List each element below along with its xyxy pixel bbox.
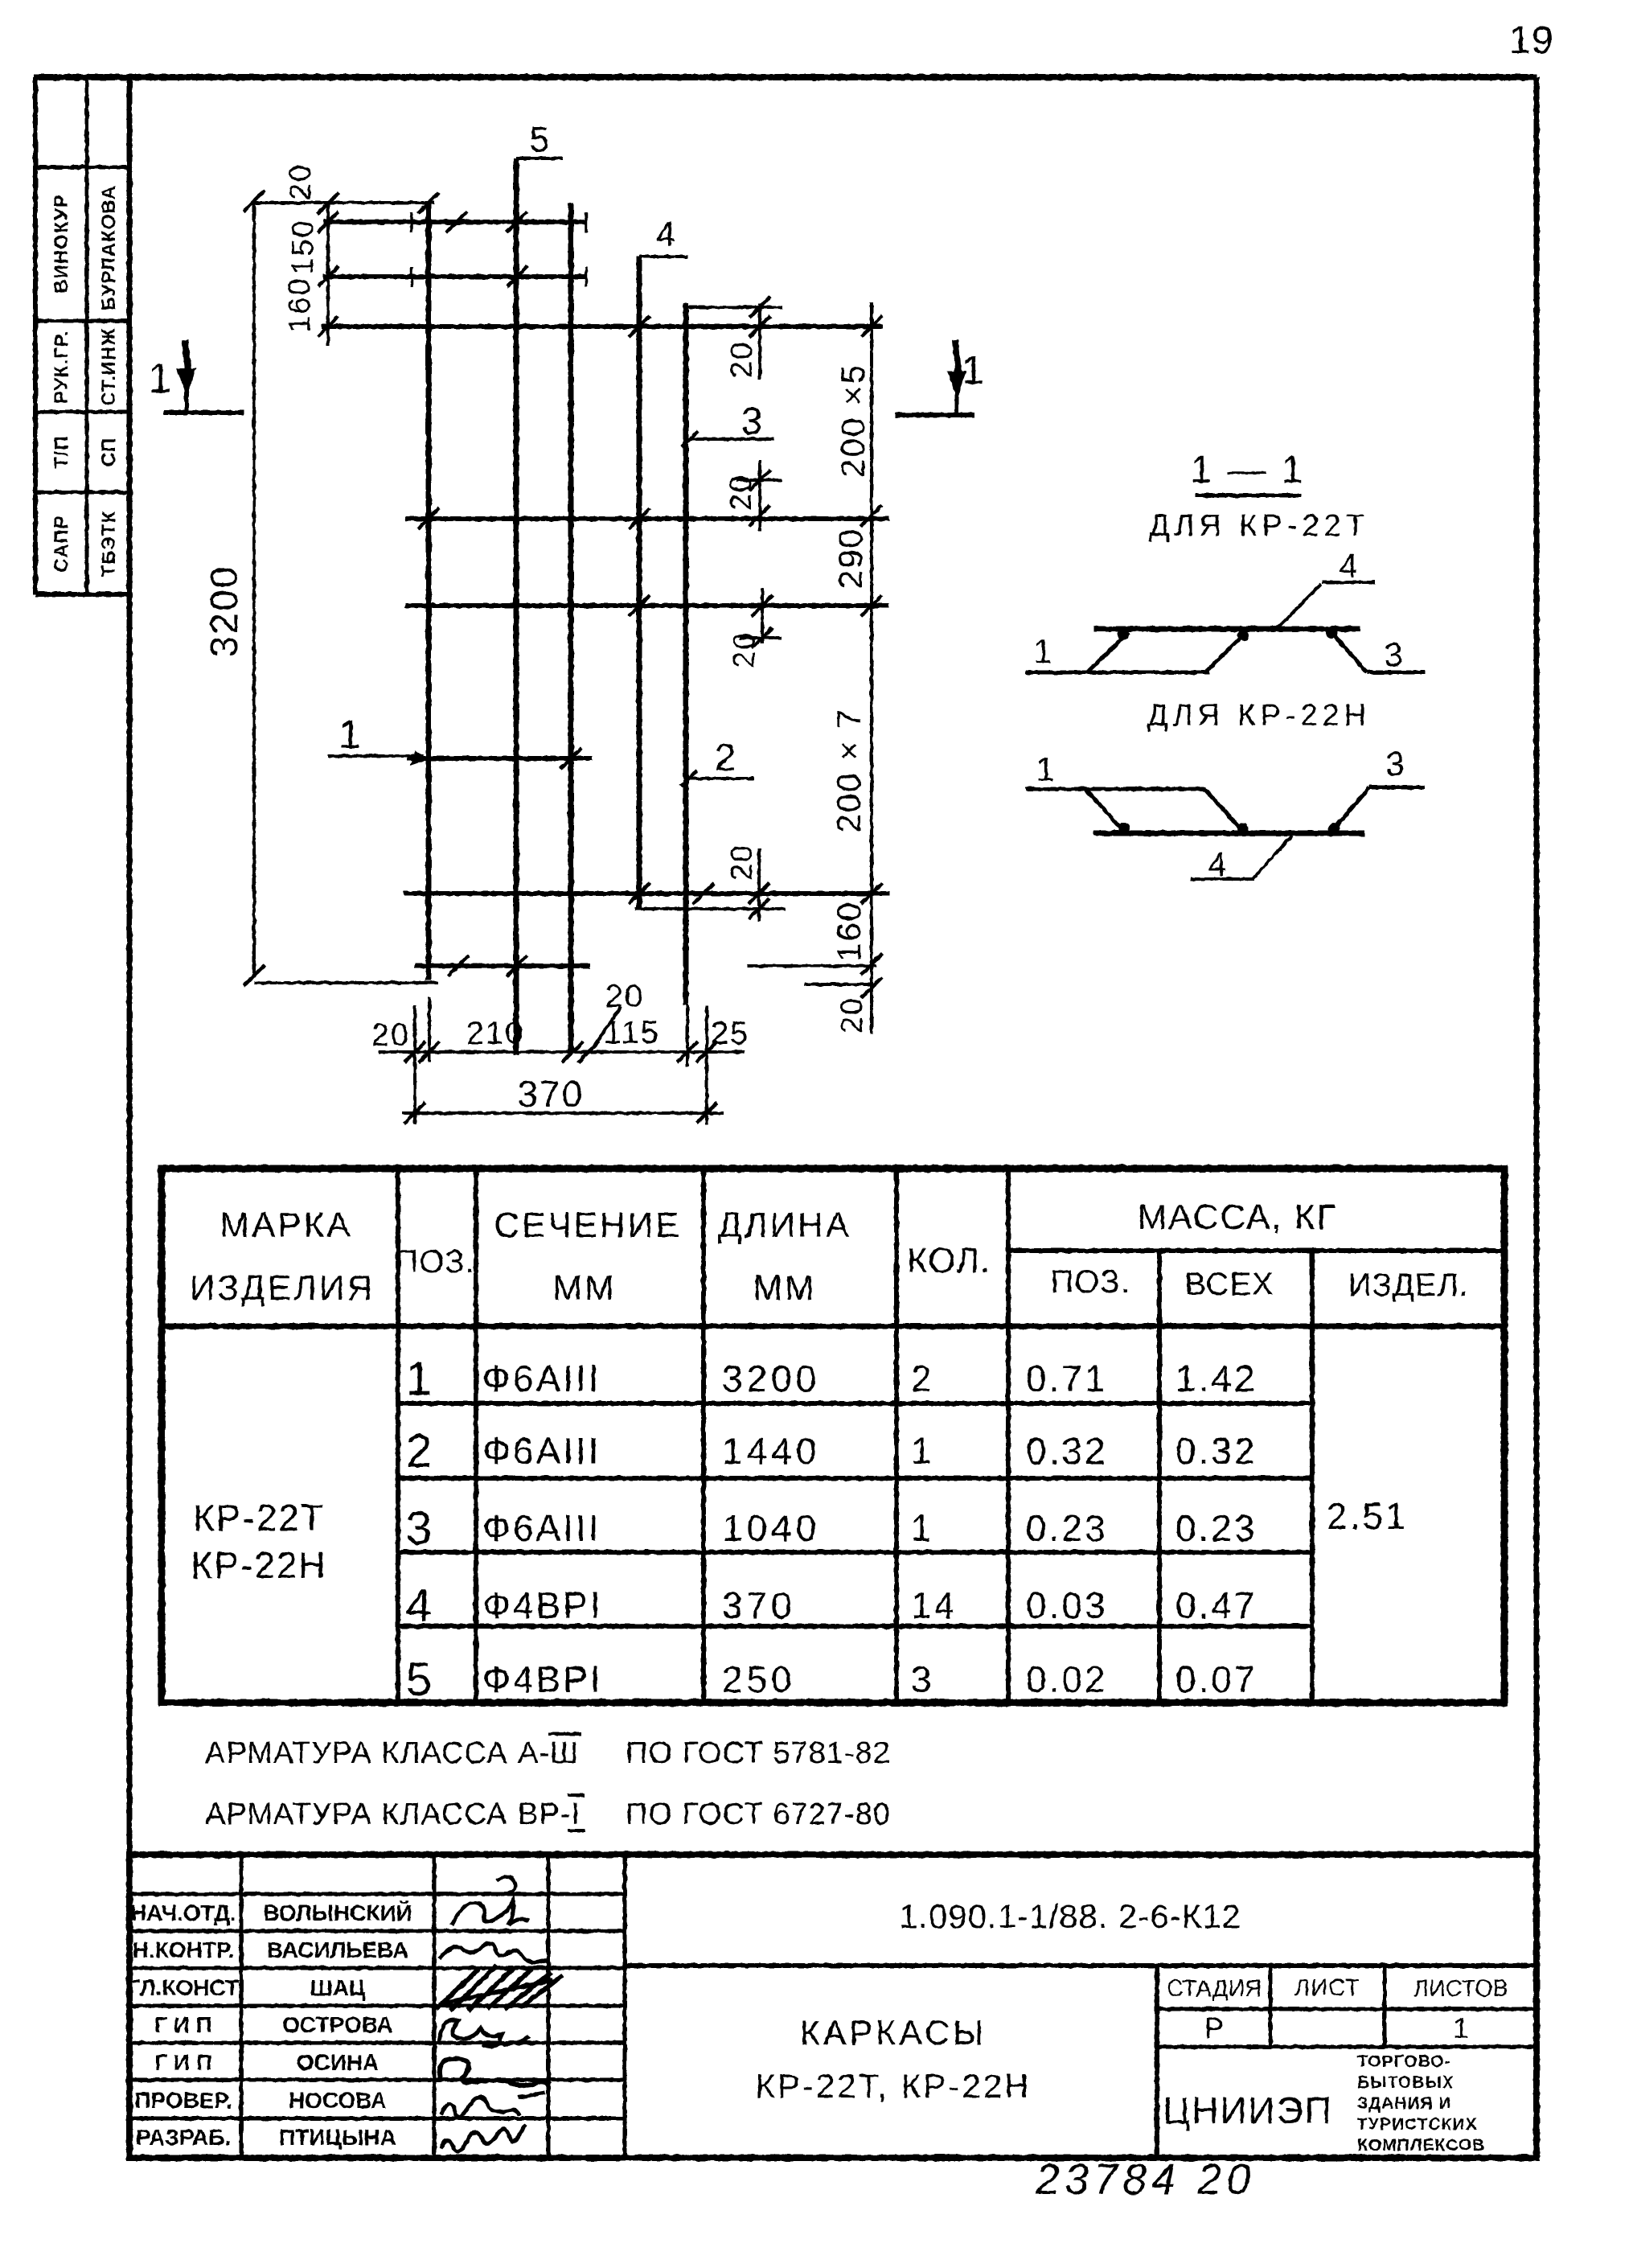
svg-text:0.23: 0.23 bbox=[1026, 1507, 1108, 1549]
svg-text:КОМПЛЕКСОВ: КОМПЛЕКСОВ bbox=[1357, 2136, 1485, 2155]
svg-text:1: 1 bbox=[1453, 2011, 1469, 2044]
svg-text:АРМАТУРА КЛАССА: АРМАТУРА КЛАССА bbox=[205, 1798, 507, 1831]
bar bottom extension stub bbox=[804, 983, 876, 986]
svg-text:0.71: 0.71 bbox=[1026, 1358, 1108, 1399]
rebar bar pos1 right bbox=[568, 203, 574, 1052]
svg-text:МАРКА: МАРКА bbox=[219, 1206, 352, 1245]
cross wire W8 bbox=[415, 963, 590, 968]
signature НАЧ.ОТД. bbox=[452, 1901, 529, 1925]
title block verticals left part bbox=[240, 1855, 244, 2158]
svg-text:0.32: 0.32 bbox=[1026, 1430, 1108, 1472]
svg-text:ЛИСТ: ЛИСТ bbox=[1294, 1975, 1360, 2001]
rebar bar pos2/3 right bbox=[683, 303, 689, 1005]
KP-22T bottom right rail (bar 3) bbox=[1367, 671, 1425, 675]
svg-text:1 — 1: 1 — 1 bbox=[1190, 449, 1305, 491]
mini dim D 20 bbox=[757, 848, 761, 921]
svg-text:5: 5 bbox=[530, 120, 551, 159]
section mark 1 right bbox=[895, 413, 974, 417]
svg-text:Г И П: Г И П bbox=[154, 2012, 212, 2037]
svg-text:СП: СП bbox=[98, 438, 120, 467]
svg-text:3: 3 bbox=[406, 1502, 433, 1555]
svg-text:0.23: 0.23 bbox=[1175, 1507, 1257, 1549]
section mark 1 left bbox=[163, 410, 244, 415]
svg-text:ЗДАНИЯ И: ЗДАНИЯ И bbox=[1357, 2094, 1452, 2113]
svg-text:1: 1 bbox=[1036, 750, 1056, 788]
cross wire W2 bbox=[323, 274, 586, 279]
doc number divider bbox=[625, 1963, 1536, 1968]
svg-text:3: 3 bbox=[911, 1658, 934, 1700]
dimension line 370 bbox=[402, 1111, 724, 1115]
svg-text:ДЛИНА: ДЛИНА bbox=[718, 1206, 851, 1245]
dimension line 3200 bbox=[252, 201, 256, 976]
label 4 with leader bbox=[639, 255, 688, 258]
chain extension verticals bbox=[413, 1005, 416, 1124]
svg-text:РУК.ГР.: РУК.ГР. bbox=[51, 330, 72, 404]
svg-text:370: 370 bbox=[722, 1584, 796, 1626]
svg-text:290: 290 bbox=[831, 528, 869, 589]
mini dimension line left bbox=[326, 201, 330, 346]
page right border bbox=[1534, 77, 1540, 2158]
svg-text:ПОЗ.: ПОЗ. bbox=[395, 1244, 474, 1280]
svg-text:1: 1 bbox=[149, 355, 174, 402]
svg-text:2: 2 bbox=[715, 737, 738, 779]
cross wire W7 + extension bbox=[404, 891, 889, 896]
svg-text:БЫТОВЫХ: БЫТОВЫХ bbox=[1357, 2073, 1454, 2092]
svg-text:1440: 1440 bbox=[722, 1430, 820, 1472]
bottom chain dimension line bbox=[379, 1050, 745, 1054]
svg-text:ШАЦ: ШАЦ bbox=[310, 1975, 366, 2000]
cross wire W4 + extension bbox=[405, 516, 889, 521]
svg-text:160: 160 bbox=[830, 901, 868, 962]
signature ГИП ОСТРОВА bbox=[439, 2019, 529, 2046]
svg-text:210: 210 bbox=[466, 1016, 525, 1051]
svg-text:ИЗДЕЛИЯ: ИЗДЕЛИЯ bbox=[190, 1268, 375, 1308]
stamp table frame bbox=[33, 77, 38, 594]
signature РАЗРАБ. ПТИЦЫНА bbox=[441, 2125, 526, 2151]
KP-22T bottom left rail (bar 1) bbox=[1026, 671, 1209, 675]
svg-text:4: 4 bbox=[656, 215, 677, 254]
svg-text:КАРКАСЫ: КАРКАСЫ bbox=[800, 2014, 987, 2052]
mini dim C 20 bbox=[761, 588, 764, 643]
svg-text:ВСЕХ: ВСЕХ bbox=[1184, 1267, 1274, 1302]
svg-text:Ф6АIII: Ф6АIII bbox=[482, 1430, 601, 1472]
svg-text:МАССА, КГ: МАССА, КГ bbox=[1138, 1198, 1338, 1237]
bottom extension line bbox=[254, 981, 438, 984]
svg-text:ТБЭТК: ТБЭТК bbox=[98, 511, 120, 577]
svg-text:3200: 3200 bbox=[203, 565, 246, 658]
rebar bar pos1 left (3200) bbox=[426, 203, 432, 980]
svg-text:НАЧ.ОТД.: НАЧ.ОТД. bbox=[130, 1900, 236, 1925]
cross wire W6 bbox=[407, 756, 593, 761]
svg-text:250: 250 bbox=[722, 1658, 796, 1700]
svg-text:ПТИЦЫНА: ПТИЦЫНА bbox=[279, 2125, 396, 2150]
svg-text:20: 20 bbox=[725, 341, 759, 378]
svg-text:20: 20 bbox=[728, 631, 761, 668]
signature ПРОВЕР. НОСОВА bbox=[441, 2097, 519, 2116]
svg-text:1.42: 1.42 bbox=[1175, 1358, 1257, 1399]
svg-text:200 × 7: 200 × 7 bbox=[830, 708, 868, 832]
svg-text:ВАСИЛЬЕВА: ВАСИЛЬЕВА bbox=[267, 1937, 408, 1962]
svg-text:ВИНОКУР: ВИНОКУР bbox=[51, 194, 72, 294]
svg-text:ОСТРОВА: ОСТРОВА bbox=[282, 2012, 393, 2037]
KP-22H bottom chord bar bbox=[1093, 831, 1364, 836]
svg-text:0.03: 0.03 bbox=[1026, 1584, 1108, 1626]
label 5 with leader bbox=[516, 157, 563, 160]
stamp row dividers bbox=[35, 166, 131, 170]
svg-text:25: 25 bbox=[711, 1016, 750, 1051]
svg-text:ИЗДЕЛ.: ИЗДЕЛ. bbox=[1348, 1268, 1469, 1303]
mini dim A top 20 bbox=[758, 304, 761, 380]
svg-text:КР-22Т: КР-22Т bbox=[193, 1497, 325, 1539]
svg-text:НОСОВА: НОСОВА bbox=[289, 2088, 387, 2113]
rebar bar pos1 mid with leader of label 5 bbox=[514, 158, 519, 1055]
svg-text:ПРОВЕР.: ПРОВЕР. bbox=[134, 2088, 232, 2113]
svg-text:ОСИНА: ОСИНА bbox=[297, 2050, 380, 2075]
svg-text:ЦНИИЭП: ЦНИИЭП bbox=[1163, 2089, 1333, 2131]
svg-text:1: 1 bbox=[911, 1430, 934, 1472]
svg-text:3: 3 bbox=[741, 401, 765, 443]
signature Н.КОНТР. bbox=[439, 1943, 548, 1967]
svg-text:1.090.1-1/88. 2-6-К12: 1.090.1-1/88. 2-6-К12 bbox=[899, 1897, 1241, 1935]
svg-text:ДЛЯ КР-22Т: ДЛЯ КР-22Т bbox=[1149, 509, 1369, 543]
svg-text:20: 20 bbox=[605, 979, 645, 1014]
label 1 with leader bbox=[328, 754, 423, 758]
svg-text:1: 1 bbox=[911, 1507, 934, 1549]
svg-text:Р: Р bbox=[1204, 2011, 1224, 2044]
svg-text:СТ.ИНЖ: СТ.ИНЖ bbox=[98, 327, 120, 406]
chain diag leader 20 bbox=[590, 1007, 621, 1052]
svg-text:1040: 1040 bbox=[722, 1507, 820, 1549]
KP-22T label 4 leader bbox=[1323, 581, 1375, 584]
KP-22T top chord bar bbox=[1093, 627, 1360, 632]
KP-22H top right rail (bar 3) bbox=[1369, 786, 1425, 790]
svg-text:КР-22Н: КР-22Н bbox=[191, 1544, 326, 1586]
svg-text:20: 20 bbox=[725, 844, 759, 881]
svg-text:3: 3 bbox=[1385, 745, 1405, 783]
svg-text:АРМАТУРА КЛАССА: АРМАТУРА КЛАССА bbox=[205, 1736, 507, 1770]
svg-text:0.47: 0.47 bbox=[1175, 1584, 1257, 1626]
svg-text:2: 2 bbox=[911, 1358, 934, 1399]
mini dim B 20 bbox=[758, 460, 761, 531]
svg-text:СТАДИЯ: СТАДИЯ bbox=[1167, 1976, 1262, 2002]
svg-text:14: 14 bbox=[911, 1584, 957, 1626]
svg-text:2.51: 2.51 bbox=[1327, 1495, 1409, 1537]
svg-text:ТУРИСТСКИХ: ТУРИСТСКИХ bbox=[1357, 2115, 1478, 2134]
svg-text:Ф4ВРI: Ф4ВРI bbox=[482, 1658, 603, 1700]
label 3 with leader bbox=[687, 438, 774, 441]
intersection tick marks bbox=[507, 212, 527, 232]
right block verticals bbox=[1155, 1966, 1159, 2158]
page left border bbox=[127, 77, 133, 2158]
svg-text:ВОЛЫНСКИЙ: ВОЛЫНСКИЙ bbox=[263, 1900, 412, 1925]
svg-text:САПР: САПР bbox=[51, 515, 72, 572]
svg-text:ПО ГОСТ 6727-80: ПО ГОСТ 6727-80 bbox=[626, 1798, 891, 1831]
svg-text:2: 2 bbox=[406, 1425, 433, 1477]
KP-22H label 4 leader bbox=[1191, 877, 1254, 881]
table verticals bbox=[396, 1169, 400, 1703]
svg-text:ЛИСТОВ: ЛИСТОВ bbox=[1413, 1976, 1508, 2002]
KP-22H diagonal a bbox=[1085, 789, 1124, 832]
label 2 with leader bbox=[687, 777, 753, 780]
svg-text:20: 20 bbox=[835, 996, 869, 1033]
svg-text:20: 20 bbox=[724, 474, 758, 511]
svg-text:1: 1 bbox=[1033, 632, 1053, 670]
svg-text:Ф4ВРI: Ф4ВРI bbox=[482, 1584, 603, 1626]
svg-text:1: 1 bbox=[406, 1353, 433, 1405]
svg-text:Ф6АIII: Ф6АIII bbox=[482, 1507, 601, 1549]
materials table outer frame bbox=[162, 1169, 1504, 1703]
svg-text:КОЛ.: КОЛ. bbox=[907, 1241, 991, 1280]
cross wire W3 + extension bbox=[322, 324, 883, 329]
svg-text:4: 4 bbox=[1339, 547, 1359, 585]
svg-text:БУРЛАКОВА: БУРЛАКОВА bbox=[98, 185, 120, 310]
KP-22T diagonal c bbox=[1330, 631, 1367, 672]
svg-text:370: 370 bbox=[518, 1073, 585, 1115]
svg-text:ТОРГОВО-: ТОРГОВО- bbox=[1357, 2052, 1451, 2071]
cross wire W5 + extension bbox=[405, 603, 889, 608]
title block outer bbox=[129, 1855, 1536, 2158]
KP-22T diagonal a bbox=[1087, 632, 1129, 672]
svg-text:Н.КОНТР.: Н.КОНТР. bbox=[133, 1937, 234, 1962]
svg-text:150: 150 bbox=[286, 219, 320, 274]
svg-text:19: 19 bbox=[1509, 19, 1553, 62]
svg-text:А-Ш: А-Ш bbox=[518, 1736, 579, 1770]
svg-text:20: 20 bbox=[284, 163, 318, 200]
svg-text:200 ×5: 200 ×5 bbox=[834, 364, 872, 478]
svg-text:0.02: 0.02 bbox=[1026, 1658, 1108, 1700]
KP-22T diagonal b bbox=[1205, 632, 1246, 672]
svg-text:3200: 3200 bbox=[722, 1358, 820, 1399]
KP-22H weld dots bbox=[1118, 823, 1130, 834]
svg-text:ГЛ.КОНСТ: ГЛ.КОНСТ bbox=[128, 1975, 239, 2000]
W8 extension stub bbox=[748, 964, 876, 968]
svg-text:1: 1 bbox=[962, 347, 986, 392]
wire end ticks bbox=[410, 212, 413, 232]
right main dimension line bbox=[870, 302, 873, 1034]
svg-text:4: 4 bbox=[1208, 845, 1228, 883]
svg-text:РАЗРАБ.: РАЗРАБ. bbox=[136, 2125, 231, 2150]
svg-text:ПО ГОСТ 5781-82: ПО ГОСТ 5781-82 bbox=[626, 1736, 891, 1770]
svg-text:23784 20: 23784 20 bbox=[1035, 2155, 1255, 2204]
signature ГЛ.КОНСТ hatch bbox=[436, 1966, 563, 2011]
svg-text:ДЛЯ КР-22Н: ДЛЯ КР-22Н bbox=[1147, 699, 1372, 733]
svg-text:0.32: 0.32 bbox=[1175, 1430, 1257, 1472]
svg-text:Ф6АIII: Ф6АIII bbox=[482, 1358, 601, 1399]
svg-text:Г И П: Г И П bbox=[154, 2050, 212, 2075]
top extension line bbox=[254, 201, 434, 204]
svg-text:КР-22Т, КР-22Н: КР-22Т, КР-22Н bbox=[755, 2067, 1031, 2105]
svg-text:3: 3 bbox=[1384, 635, 1404, 673]
svg-text:ПОЗ.: ПОЗ. bbox=[1050, 1264, 1130, 1300]
svg-text:Т/П: Т/П bbox=[51, 435, 72, 469]
rebar bar pos4 leader line bbox=[637, 257, 642, 909]
page top border bbox=[34, 74, 1536, 80]
KP-22T weld dots bbox=[1118, 629, 1129, 640]
signature ГИП ОСИНА bbox=[440, 2059, 550, 2085]
svg-text:ММ: ММ bbox=[753, 1268, 816, 1308]
svg-text:4: 4 bbox=[406, 1580, 433, 1632]
svg-text:0.07: 0.07 bbox=[1175, 1658, 1257, 1700]
KP-22H top left rail (bar 1) bbox=[1026, 787, 1206, 791]
KP-22H diagonal b bbox=[1204, 789, 1243, 832]
svg-text:1: 1 bbox=[338, 712, 363, 757]
svg-text:5: 5 bbox=[406, 1654, 433, 1706]
svg-text:160: 160 bbox=[283, 277, 317, 332]
svg-text:ММ: ММ bbox=[552, 1268, 616, 1308]
title block horizontals left part bbox=[129, 1892, 625, 1896]
svg-text:20: 20 bbox=[371, 1017, 411, 1053]
stadia rows bbox=[1157, 2007, 1536, 2011]
svg-text:СЕЧЕНИЕ: СЕЧЕНИЕ bbox=[494, 1206, 682, 1245]
cross wire W1 bbox=[323, 220, 586, 224]
svg-text:ВР-I: ВР-I bbox=[518, 1798, 581, 1831]
table horizontals bbox=[1008, 1248, 1504, 1253]
KP-22H diagonal c bbox=[1334, 787, 1369, 829]
